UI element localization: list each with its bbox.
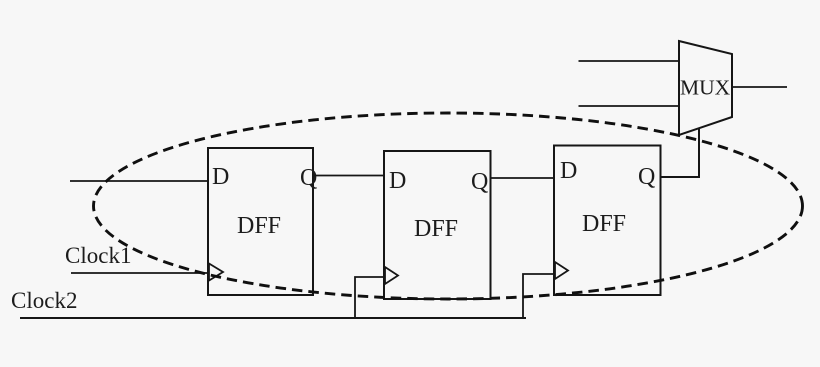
wire: D input to DFF1 — [70, 180, 208, 182]
wire: Q3 horizontal then riser up to MUX — [661, 124, 700, 177]
MUX U4 trapezoid — [679, 41, 732, 135]
scan-chain boundary dashed ellipse — [94, 113, 803, 299]
wire: Q2 to D3 — [491, 177, 555, 179]
svg-text:D: D — [212, 164, 229, 190]
svg-text:Q: Q — [300, 165, 317, 191]
wire: Q1 to D2 — [313, 175, 384, 177]
wire: MUX input 1 — [579, 105, 680, 107]
wire: Clock1 to DFF1 clock — [71, 272, 209, 274]
svg-text:DFF: DFF — [582, 211, 626, 237]
wire: MUX output — [732, 86, 787, 88]
svg-text:DFF: DFF — [237, 213, 281, 239]
wire: Clock2 branch to DFF2 clock — [355, 277, 385, 318]
wire: Clock2 rail — [20, 317, 526, 319]
DFF U2 box — [384, 151, 491, 299]
svg-text:Q: Q — [638, 164, 655, 190]
wire: MUX input 0 — [579, 60, 680, 62]
svg-text:D: D — [560, 158, 577, 184]
DFF U3 box — [554, 146, 661, 296]
DFF U2 clock triangle — [385, 267, 398, 284]
svg-text:Q: Q — [471, 169, 488, 195]
svg-text:D: D — [389, 168, 406, 194]
svg-text:DFF: DFF — [414, 216, 458, 242]
svg-text:Clock2: Clock2 — [11, 288, 77, 313]
DFF U3 clock triangle — [555, 262, 568, 279]
DFF U1 box — [208, 148, 313, 295]
wire: Clock2 branch to DFF3 clock — [523, 274, 555, 318]
DFF U1 clock triangle — [209, 264, 223, 281]
svg-text:Clock1: Clock1 — [65, 243, 131, 268]
svg-text:MUX: MUX — [680, 76, 731, 100]
